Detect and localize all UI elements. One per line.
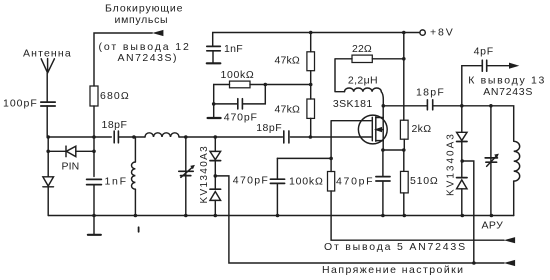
wire top rail	[213, 33, 420, 47]
resistor 47k lower	[307, 99, 315, 118]
svg-text:510Ω: 510Ω	[410, 175, 439, 187]
resistor 510R	[401, 150, 409, 216]
antenna	[41, 59, 54, 73]
node bus varactor2	[461, 214, 465, 218]
svg-text:Блокирующие: Блокирующие	[105, 3, 183, 15]
wire left shunt branch	[47, 137, 49, 216]
wire blocking-pulse line with arrow	[94, 30, 163, 86]
node 47k divider mid	[309, 83, 313, 87]
diode shunt (left vertical)	[43, 177, 54, 187]
svg-text:470pF: 470pF	[233, 175, 269, 187]
capacitor 100pF	[41, 102, 55, 106]
wire 4pF tap	[462, 66, 510, 106]
svg-text:От вывода 5 AN7243S: От вывода 5 AN7243S	[324, 241, 467, 253]
varactor D1 top (left pair)	[210, 137, 221, 189]
node drain	[382, 104, 386, 108]
varactor D3 top (right pair)	[457, 106, 467, 177]
svg-text:100kΩ: 100kΩ	[289, 176, 324, 188]
node 470p right top	[264, 83, 268, 87]
node trimmer1 junction	[184, 135, 188, 139]
node PIN right	[92, 150, 96, 154]
node varactor1 middle	[214, 174, 218, 178]
wire output arrow	[509, 63, 519, 69]
wire tuning arrow	[504, 260, 515, 266]
svg-text:+8V: +8V	[430, 26, 455, 38]
node tank varactor tap	[460, 104, 464, 108]
node main-L2 junction	[132, 135, 136, 139]
svg-text:3SK181: 3SK181	[333, 98, 373, 110]
capacitor 470pF (AGC filter)	[214, 85, 266, 109]
capacitor 1nF rail decoupling	[207, 46, 221, 63]
svg-text:KV1340A3: KV1340A3	[199, 145, 210, 204]
varactor D2 bottom (left pair)	[210, 189, 221, 215]
inductor output tank coil	[514, 141, 520, 215]
svg-text:470pF: 470pF	[224, 111, 258, 123]
varactor D4 bottom (right pair)	[457, 178, 467, 216]
svg-text:KV1340A3: KV1340A3	[446, 132, 457, 196]
capacitor 1nF shunt	[87, 179, 102, 184]
wire gate2 lead	[331, 121, 371, 159]
node bus 470pF-2	[276, 214, 280, 218]
svg-text:Напряжение настройки: Напряжение настройки	[322, 264, 465, 276]
svg-text:PIN: PIN	[62, 160, 80, 172]
label (от вывода 12 AN7243S)	[99, 41, 191, 64]
diode PIN	[66, 146, 76, 157]
wire gate2 bias node	[277, 157, 331, 159]
wire 680 lower lead	[93, 106, 95, 216]
capacitor 470pF gate2	[270, 158, 284, 215]
capacitor 4pF	[482, 60, 486, 71]
node bus trimmer2	[490, 214, 494, 218]
svg-text:18pF: 18pF	[256, 122, 282, 134]
node 47k gate junction	[309, 135, 313, 139]
node bus 680	[92, 214, 96, 218]
node gate2 bias	[329, 157, 333, 161]
svg-text:18pF: 18pF	[416, 86, 445, 98]
svg-text:47kΩ: 47kΩ	[275, 54, 300, 66]
svg-text:470pF: 470pF	[336, 175, 374, 187]
svg-text:100pF: 100pF	[3, 98, 38, 110]
wire ground bus	[48, 215, 514, 217]
svg-text:импульсы: импульсы	[115, 14, 169, 26]
capacitor 18pF series 2	[284, 131, 289, 143]
wire drain output line	[383, 106, 513, 142]
node antenna junction	[46, 135, 50, 139]
wire 100k left ground	[208, 85, 221, 119]
svg-text:AN7243S): AN7243S)	[118, 52, 178, 64]
svg-text:AN7243S: AN7243S	[483, 86, 533, 98]
terminal +8V	[420, 30, 425, 35]
svg-text:К выводу 13: К выводу 13	[468, 75, 546, 87]
label Блокирующие импульсы	[105, 3, 183, 26]
svg-text:100kΩ: 100kΩ	[221, 69, 255, 81]
wire AGC arrow	[504, 237, 515, 243]
svg-text:22Ω: 22Ω	[352, 43, 372, 55]
capacitor trimmer2 (variable)	[485, 106, 499, 216]
capacitor trimmer1 (variable)	[179, 137, 195, 216]
node varactor1 junction	[214, 135, 218, 139]
inductor 2.2uH	[345, 88, 384, 106]
node bus trimmer1	[184, 214, 188, 218]
node bus 470pF-3	[381, 214, 385, 218]
svg-text:1nF: 1nF	[105, 175, 128, 187]
svg-text:1nF: 1nF	[224, 43, 243, 55]
node bus 510R	[403, 214, 407, 218]
node tank trimmer tap	[489, 104, 493, 108]
svg-text:АРУ: АРУ	[482, 219, 504, 231]
svg-text:680Ω: 680Ω	[100, 90, 130, 102]
resistor 100k AGC series	[328, 158, 505, 240]
node rail 47k	[309, 31, 313, 35]
wire antenna lead	[46, 73, 48, 137]
inductor L2 shunt vertical	[132, 137, 136, 216]
transistor 3SK181	[358, 106, 387, 150]
node varactor2 middle	[460, 159, 464, 163]
wire tuning feed right	[462, 161, 474, 263]
resistor 22R	[335, 55, 404, 92]
node tuning feed junction	[472, 261, 476, 265]
node source right	[402, 148, 406, 152]
wire PIN branch	[48, 150, 94, 152]
resistor 47k upper	[307, 33, 315, 138]
svg-text:18pF: 18pF	[102, 119, 128, 131]
resistor 100k (AGC filter top)	[214, 81, 311, 88]
node 22R right	[402, 57, 406, 61]
node 680 bottom junction	[92, 135, 96, 139]
node PIN left	[46, 150, 50, 154]
capacitor 470pF source	[376, 150, 390, 216]
node source left	[381, 148, 385, 152]
wire main signal line	[47, 136, 371, 138]
svg-text:Антенна: Антенна	[23, 48, 72, 60]
svg-text:2,2μH: 2,2μH	[348, 74, 378, 86]
wire stray tick mark	[138, 227, 140, 232]
wire source line	[383, 149, 404, 151]
ground symbol	[88, 216, 101, 235]
node bus varactor1	[214, 214, 218, 218]
inductor L series (air coil)	[145, 133, 179, 137]
node 100k left	[212, 102, 216, 106]
capacitor 18pF output	[427, 100, 432, 110]
node bus L2	[134, 214, 138, 218]
resistor 680R	[90, 86, 98, 106]
wire tuning feed left	[215, 176, 504, 263]
svg-text:47kΩ: 47kΩ	[275, 103, 301, 115]
svg-text:2kΩ: 2kΩ	[412, 123, 432, 135]
svg-text:4pF: 4pF	[474, 45, 494, 57]
capacitor 18pF (input series)	[114, 131, 118, 143]
resistor 2k	[400, 33, 408, 151]
node rail 22R	[402, 31, 406, 35]
